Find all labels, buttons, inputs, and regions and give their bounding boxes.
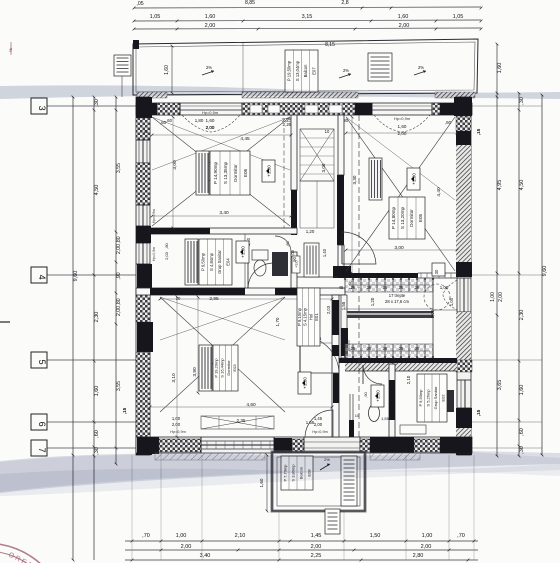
svg-text:28: 28 [351, 346, 356, 351]
svg-text:S 13,35mp: S 13,35mp [223, 161, 228, 184]
svg-text:,15: ,15 [142, 130, 147, 134]
svg-text:2,00: 2,00 [205, 23, 216, 29]
svg-text:4,50: 4,50 [94, 185, 100, 196]
svg-text:1,50: 1,50 [370, 533, 381, 539]
svg-text:1,05: 1,05 [150, 14, 161, 20]
svg-text:№: № [8, 48, 13, 52]
svg-text:E03: E03 [232, 364, 237, 372]
svg-text:30: 30 [434, 269, 439, 274]
svg-text:4,50: 4,50 [519, 180, 525, 191]
svg-text:1,40: 1,40 [322, 248, 327, 257]
svg-text:1,05: 1,05 [453, 14, 464, 20]
svg-text:3,10: 3,10 [171, 373, 177, 383]
svg-text:2,00: 2,00 [116, 306, 122, 316]
svg-text:4,95: 4,95 [497, 180, 503, 191]
svg-text:Hp=0,9m: Hp=0,9m [394, 116, 411, 121]
svg-text:1,20: 1,20 [306, 229, 315, 234]
svg-text:1,60: 1,60 [94, 386, 100, 397]
svg-text:2,00: 2,00 [421, 544, 432, 550]
svg-text:2,25: 2,25 [283, 122, 292, 127]
svg-text:,80: ,80 [116, 236, 122, 243]
svg-text:8,85: 8,85 [245, 0, 255, 6]
svg-text:1,00: 1,00 [172, 416, 181, 421]
svg-text:2,00: 2,00 [172, 422, 181, 427]
svg-text:28: 28 [383, 285, 388, 290]
svg-text:3: 3 [37, 106, 47, 111]
svg-text:7: 7 [37, 448, 47, 453]
svg-text:10: 10 [355, 413, 360, 418]
svg-text:3,00: 3,00 [321, 163, 326, 172]
svg-text:,60: ,60 [94, 430, 100, 438]
svg-text:2,00: 2,00 [314, 422, 323, 427]
svg-text:E06: E06 [243, 168, 248, 177]
svg-text:,15: ,15 [122, 407, 128, 414]
svg-text:1,60: 1,60 [164, 65, 170, 75]
svg-text:E07: E07 [311, 67, 316, 75]
svg-text:,80: ,80 [285, 240, 290, 246]
svg-text:2,00: 2,00 [430, 309, 435, 318]
svg-text:Dormitor: Dormitor [233, 164, 238, 182]
svg-text:2,8: 2,8 [341, 0, 348, 6]
svg-text:,05: ,05 [136, 1, 143, 7]
svg-text:28: 28 [367, 285, 372, 290]
svg-text:,70: ,70 [142, 533, 150, 539]
svg-text:1,80: 1,80 [195, 118, 204, 123]
svg-text:S 5,26mp: S 5,26mp [426, 389, 431, 407]
svg-text:2,00: 2,00 [399, 23, 410, 29]
svg-text:2,10: 2,10 [406, 375, 411, 384]
svg-text:3,40: 3,40 [200, 553, 211, 559]
svg-text:6: 6 [37, 422, 47, 427]
svg-text:Hp=0,9m: Hp=0,9m [152, 247, 156, 261]
svg-text:9,60: 9,60 [73, 271, 79, 282]
svg-text:S 13,04mp: S 13,04mp [295, 60, 300, 81]
svg-text:3,90: 3,90 [192, 367, 198, 377]
svg-text:S 4,84mp: S 4,84mp [209, 252, 214, 271]
svg-text:1,60: 1,60 [398, 14, 409, 20]
svg-text:Hol: Hol [308, 314, 313, 320]
svg-text:9,60: 9,60 [542, 266, 548, 277]
svg-text:,70: ,70 [457, 533, 465, 539]
svg-text:S 13,20mp: S 13,20mp [400, 206, 405, 229]
svg-text:,60: ,60 [166, 118, 172, 123]
svg-text:10: 10 [325, 129, 330, 134]
svg-text:1,00: 1,00 [422, 533, 433, 539]
svg-text:1,70: 1,70 [275, 317, 280, 326]
svg-text:,90: ,90 [363, 391, 368, 397]
svg-text:1,45: 1,45 [311, 533, 322, 539]
svg-text:E02: E02 [441, 394, 446, 402]
svg-text:2%: 2% [206, 65, 212, 70]
svg-text:2,00: 2,00 [181, 544, 192, 550]
svg-text:1,60: 1,60 [205, 14, 216, 20]
svg-text:28: 28 [351, 285, 356, 290]
svg-text:28: 28 [415, 346, 420, 351]
svg-text:1,45: 1,45 [314, 416, 323, 421]
svg-text:Dormitor: Dormitor [409, 209, 414, 227]
svg-text:3,55: 3,55 [116, 381, 122, 391]
svg-text:,90: ,90 [116, 272, 122, 279]
svg-text:P 14,80mp: P 14,80mp [391, 206, 396, 229]
svg-text:S 16,44mp: S 16,44mp [220, 358, 225, 378]
svg-text:E05: E05 [418, 213, 423, 222]
svg-text:E04: E04 [225, 258, 230, 266]
svg-text:P 9,50mp: P 9,50mp [418, 389, 423, 407]
svg-text:1,60: 1,60 [398, 124, 407, 129]
svg-text:Grup Sanitar: Grup Sanitar [433, 386, 438, 409]
svg-text:Grup Sanitar: Grup Sanitar [217, 250, 222, 274]
svg-text:2,03: 2,03 [164, 251, 169, 260]
svg-text:Dormitor: Dormitor [226, 360, 231, 376]
svg-text:2,30: 2,30 [519, 310, 525, 321]
svg-text:2%: 2% [418, 65, 424, 70]
svg-text:2,00: 2,00 [311, 544, 322, 550]
svg-text:1,60: 1,60 [497, 63, 503, 74]
svg-text:1,55: 1,55 [341, 301, 346, 310]
svg-text:,15: ,15 [476, 409, 482, 416]
svg-text:2,00: 2,00 [398, 131, 407, 136]
svg-text:28: 28 [399, 346, 404, 351]
svg-text:P 9,50mp: P 9,50mp [201, 252, 206, 271]
svg-text:4: 4 [37, 275, 47, 280]
svg-text:E01: E01 [314, 313, 319, 321]
svg-text:28: 28 [383, 346, 388, 351]
svg-text:2,03: 2,03 [326, 305, 331, 314]
svg-text:1,60: 1,60 [206, 118, 215, 123]
svg-text:3,55: 3,55 [116, 163, 122, 173]
svg-text:1,55: 1,55 [381, 416, 390, 421]
svg-text:2,25: 2,25 [311, 553, 322, 559]
svg-text:1,55: 1,55 [306, 420, 315, 425]
svg-text:2,00: 2,00 [206, 125, 215, 130]
svg-text:3,30: 3,30 [352, 175, 357, 184]
svg-text:P 19,50mp: P 19,50mp [287, 60, 292, 81]
svg-text:S 4,15mp: S 4,15mp [303, 307, 308, 326]
svg-text:1,00: 1,00 [176, 533, 187, 539]
svg-text:P 9,10mp: P 9,10mp [297, 307, 302, 326]
svg-text:,90: ,90 [292, 256, 297, 262]
svg-text:,80: ,80 [116, 298, 122, 305]
svg-text:28 x 17,6 cm: 28 x 17,6 cm [385, 299, 409, 304]
svg-text:1,00: 1,00 [490, 292, 496, 302]
svg-text:3,40: 3,40 [219, 210, 229, 216]
svg-text:2%: 2% [343, 68, 349, 73]
svg-text:P 19,20mp: P 19,20mp [213, 358, 218, 378]
svg-text:,30: ,30 [94, 99, 100, 107]
svg-text:3,15: 3,15 [302, 14, 313, 20]
svg-text:,15: ,15 [476, 128, 482, 135]
svg-text:2,03: 2,03 [334, 375, 339, 384]
svg-text:Hp=0,9m: Hp=0,9m [312, 430, 328, 434]
svg-text:Balcon: Balcon [303, 64, 308, 77]
svg-text:2,00: 2,00 [498, 292, 504, 302]
svg-text:5: 5 [37, 360, 47, 365]
svg-text:28: 28 [399, 285, 404, 290]
svg-text:1,60: 1,60 [519, 385, 525, 396]
svg-text:3,65: 3,65 [497, 380, 503, 391]
svg-text:,80: ,80 [164, 242, 169, 248]
svg-text:45: 45 [339, 285, 344, 290]
svg-text:28: 28 [415, 285, 420, 290]
svg-text:2,00: 2,00 [116, 244, 122, 254]
svg-text:1,60: 1,60 [285, 440, 290, 449]
svg-text:P 14,90mp: P 14,90mp [213, 161, 218, 184]
svg-text:,30: ,30 [94, 447, 100, 455]
svg-text:4,40: 4,40 [436, 187, 442, 197]
svg-text:2,30: 2,30 [94, 312, 100, 323]
svg-text:17 trepte: 17 trepte [389, 293, 406, 298]
svg-text:8,15: 8,15 [325, 42, 335, 48]
svg-text:2,80: 2,80 [413, 553, 424, 559]
svg-text:2,10: 2,10 [235, 533, 246, 539]
svg-text:1,20: 1,20 [370, 297, 375, 306]
svg-text:,60: ,60 [519, 428, 525, 436]
svg-text:28: 28 [367, 346, 372, 351]
svg-text:1,00: 1,00 [449, 297, 454, 306]
svg-text:Hp=0,9m: Hp=0,9m [202, 110, 219, 115]
svg-text:4,45: 4,45 [240, 136, 250, 142]
svg-text:Hp=0,9m: Hp=0,9m [170, 430, 186, 434]
svg-text:,60: ,60 [445, 120, 452, 125]
